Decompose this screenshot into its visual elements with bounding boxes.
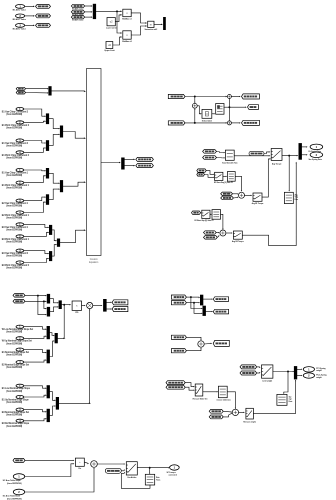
from tag W1b bbox=[240, 371, 257, 375]
wire bbox=[49, 173, 59, 183]
data store DS2 bbox=[277, 394, 287, 405]
outport oval OV2 bbox=[310, 152, 323, 158]
switch SWb bbox=[253, 193, 262, 201]
wire bbox=[50, 392, 56, 401]
wire bbox=[24, 336, 46, 338]
inport oval B3 bbox=[16, 199, 24, 203]
wire bbox=[24, 197, 46, 201]
wire bbox=[264, 152, 269, 154]
wire bbox=[24, 121, 46, 122]
upper limit block bbox=[106, 42, 113, 49]
wire bbox=[197, 106, 201, 114]
svg-text:Limit weight: Limit weight bbox=[262, 379, 272, 382]
mux bbox=[47, 326, 50, 339]
mux bbox=[49, 251, 52, 261]
wire bbox=[223, 415, 228, 417]
wire bbox=[25, 15, 34, 17]
switch SWsw bbox=[195, 384, 203, 396]
product block P1 bbox=[123, 9, 131, 17]
outport oval OP1 bbox=[303, 367, 314, 372]
wire cluster B join bbox=[63, 305, 65, 339]
mux MB5 bbox=[294, 366, 297, 379]
svg-text:SC Arm Table Base: SC Arm Table Base bbox=[3, 495, 21, 498]
outport oval OB3 bbox=[170, 465, 180, 470]
wire bbox=[24, 259, 49, 263]
wire bbox=[25, 300, 46, 302]
svg-text:command: command bbox=[169, 475, 178, 477]
svg-text:(from EEPROM): (from EEPROM) bbox=[6, 267, 22, 270]
wire bbox=[113, 37, 121, 45]
inport oval B2 bbox=[16, 181, 24, 185]
wire bbox=[25, 5, 34, 7]
mux M1 bbox=[93, 4, 96, 19]
wire bbox=[24, 148, 46, 152]
switch SWl bbox=[202, 210, 210, 218]
svg-text:remove slider (m): remove slider (m) bbox=[216, 399, 230, 402]
wire bbox=[97, 463, 124, 465]
wire bbox=[24, 169, 46, 172]
svg-text:B1 Pitch Chirp Coefficient 2: B1 Pitch Chirp Coefficient 2 bbox=[2, 154, 30, 157]
wire bbox=[137, 467, 168, 469]
svg-text:m: m bbox=[150, 23, 152, 26]
wire bbox=[186, 296, 199, 298]
goto tag GTR3 bbox=[242, 120, 260, 125]
wire bbox=[245, 194, 252, 196]
wire bbox=[24, 224, 49, 227]
wire bbox=[50, 341, 54, 357]
from tag FT1 bbox=[16, 87, 25, 90]
svg-text:(from EEPROM): (from EEPROM) bbox=[6, 174, 22, 177]
svg-text:(from EEPROM): (from EEPROM) bbox=[6, 205, 22, 208]
wire bbox=[24, 176, 46, 183]
mux bbox=[46, 168, 49, 179]
mux bbox=[49, 225, 52, 235]
sum SMa bbox=[239, 192, 245, 198]
block E3 bbox=[218, 386, 227, 398]
switch SWv bbox=[246, 408, 254, 419]
from tag FR1 bbox=[168, 94, 185, 98]
wire bbox=[262, 159, 270, 197]
svg-text:(from EEPROM): (from EEPROM) bbox=[6, 126, 22, 129]
wire bbox=[106, 301, 111, 303]
inport oval A1 bbox=[16, 107, 24, 111]
wire bbox=[25, 468, 94, 492]
rate block BY bbox=[145, 474, 154, 485]
svg-text:SC1 torque: SC1 torque bbox=[167, 471, 176, 474]
wire bbox=[50, 307, 58, 312]
svg-text:B2 Pitch Chirp Coefficient 1: B2 Pitch Chirp Coefficient 1 bbox=[2, 214, 30, 217]
block BW bbox=[75, 458, 84, 466]
wire bbox=[228, 99, 230, 121]
sum SM1 bbox=[227, 95, 231, 99]
wire bbox=[85, 5, 92, 7]
inport oval C4 bbox=[16, 261, 24, 265]
gain block BA bbox=[202, 109, 212, 118]
svg-text:B1 Pitch Chirp Coefficient 1: B1 Pitch Chirp Coefficient 1 bbox=[2, 184, 30, 187]
wire bbox=[206, 311, 213, 313]
wire bbox=[82, 305, 85, 307]
wire bbox=[203, 298, 212, 300]
svg-text:B3 Nominal Edge Slope Set: B3 Nominal Edge Slope Set bbox=[2, 411, 29, 414]
wire bbox=[185, 387, 194, 390]
wire bbox=[194, 303, 202, 314]
inport oval D4 bbox=[16, 360, 24, 364]
goto tag GTd bbox=[112, 300, 128, 305]
svg-text:weight: weight bbox=[316, 369, 322, 372]
wire bbox=[234, 155, 269, 157]
inport oval D3 bbox=[16, 348, 24, 352]
wire bbox=[257, 366, 260, 368]
wire bbox=[59, 402, 90, 404]
wire bbox=[51, 90, 84, 92]
svg-text:B2 Nominal Edge Slope Set: B2 Nominal Edge Slope Set bbox=[2, 364, 29, 367]
from tag F2 bbox=[71, 10, 84, 13]
wire bbox=[210, 213, 211, 215]
wire bbox=[24, 360, 46, 362]
wire bbox=[49, 119, 59, 129]
switch SWx bbox=[126, 462, 137, 475]
svg-text:W Low Nominal Edge Slope Set: W Low Nominal Edge Slope Set bbox=[2, 328, 34, 331]
block E2 bbox=[212, 210, 221, 220]
from tag FT4b bbox=[171, 349, 186, 353]
wire bbox=[227, 392, 235, 409]
demux DM1 bbox=[121, 158, 124, 170]
sum SMc bbox=[232, 409, 238, 415]
svg-text:MinMax u2: MinMax u2 bbox=[122, 41, 132, 43]
inport oval In2 bbox=[16, 14, 25, 18]
svg-text:(from EEPROM): (from EEPROM) bbox=[6, 425, 22, 428]
svg-text:(from EEPROM): (from EEPROM) bbox=[6, 113, 22, 116]
mux bbox=[46, 194, 49, 205]
svg-text:W Up Nominal Edge Slope Set: W Up Nominal Edge Slope Set bbox=[2, 340, 32, 343]
svg-text:(from EEPROM): (from EEPROM) bbox=[6, 255, 22, 258]
sum SMd bbox=[91, 461, 98, 468]
wire bbox=[85, 16, 92, 18]
wire bbox=[85, 11, 92, 13]
from tag S3a bbox=[13, 294, 25, 298]
svg-text:(from EEPROM): (from EEPROM) bbox=[6, 156, 22, 159]
wire bbox=[24, 395, 46, 397]
wire bbox=[186, 337, 201, 340]
inport oval E4 bbox=[16, 419, 24, 423]
goto tag GTc bbox=[213, 340, 229, 346]
inport oval B1 bbox=[16, 168, 24, 172]
mux MM0 bbox=[48, 86, 51, 95]
mux bbox=[46, 113, 49, 124]
mux MB4 bbox=[103, 299, 107, 312]
wire bbox=[185, 96, 226, 98]
wire bbox=[106, 308, 111, 310]
switch SWt bbox=[262, 365, 273, 378]
wire bbox=[24, 109, 46, 116]
inport oval OB1 bbox=[13, 474, 24, 480]
from tag T2 bbox=[203, 156, 217, 160]
inport oval D1 bbox=[16, 325, 24, 329]
goto tag GTa bbox=[213, 297, 228, 302]
inport oval In3 bbox=[16, 23, 25, 27]
wire bbox=[223, 410, 231, 413]
wire bbox=[200, 212, 202, 214]
svg-text:B1 ADC Value: B1 ADC Value bbox=[13, 8, 27, 11]
wire bbox=[224, 106, 229, 108]
wire bbox=[221, 214, 223, 229]
wire bbox=[117, 11, 121, 33]
wire bbox=[185, 122, 226, 124]
svg-text:Upper Limit: Upper Limit bbox=[104, 49, 115, 52]
svg-text:Avg B1 Torque: Avg B1 Torque bbox=[252, 202, 264, 205]
wire bbox=[50, 299, 58, 303]
from tag L1a bbox=[192, 211, 201, 214]
from tag FT3a bbox=[171, 295, 186, 299]
mux combiner bbox=[57, 239, 60, 247]
wire bbox=[229, 106, 245, 108]
svg-text:SC Arm Table Slope: SC Arm Table Slope bbox=[3, 479, 22, 482]
svg-text:B1 Yaw Chirp Coefficient 2: B1 Yaw Chirp Coefficient 2 bbox=[2, 142, 29, 145]
svg-text:(from EEPROM): (from EEPROM) bbox=[6, 342, 22, 345]
output bar bbox=[163, 17, 166, 30]
from tag W3a bbox=[209, 409, 223, 413]
wire bbox=[49, 134, 59, 145]
mux combiner bbox=[55, 333, 58, 343]
mux MS2 bbox=[47, 307, 50, 317]
wire bbox=[24, 327, 46, 330]
wire bbox=[63, 182, 85, 186]
wire bbox=[216, 232, 219, 234]
from tag FT2 bbox=[16, 91, 25, 94]
wire bbox=[26, 88, 48, 90]
block E1 bbox=[227, 172, 235, 182]
wire bbox=[223, 175, 227, 177]
wire bbox=[282, 155, 297, 157]
wire bbox=[235, 176, 241, 190]
from pill PL2 bbox=[105, 468, 121, 473]
wire bbox=[226, 232, 232, 234]
wire bbox=[38, 296, 46, 315]
mux MB2 bbox=[299, 143, 302, 160]
wire bbox=[212, 113, 215, 115]
svg-text:MinMax u1: MinMax u1 bbox=[122, 18, 132, 20]
svg-text:B1 Pitch Chirp Coefficient 3: B1 Pitch Chirp Coefficient 3 bbox=[2, 124, 30, 127]
wire bbox=[297, 368, 302, 370]
svg-text:B1 Nominal Edge Slope Set: B1 Nominal Edge Slope Set bbox=[2, 351, 29, 354]
svg-text:B3 Yaw Chirp Coefficient 1: B3 Yaw Chirp Coefficient 1 bbox=[2, 226, 29, 229]
wire bbox=[25, 464, 74, 477]
inport oval D2 bbox=[16, 336, 24, 340]
wire bbox=[121, 470, 124, 472]
from tag Z1 bbox=[13, 458, 25, 462]
wire bbox=[52, 230, 56, 241]
wire bbox=[231, 96, 239, 98]
svg-text:(from EEPROM): (from EEPROM) bbox=[6, 390, 22, 393]
wire bbox=[50, 406, 56, 415]
mux MXb bbox=[203, 306, 206, 316]
from tag U1b bbox=[197, 173, 205, 176]
svg-text:(from EEPROM): (from EEPROM) bbox=[6, 145, 22, 148]
wire bbox=[253, 380, 295, 413]
wire bbox=[239, 411, 244, 413]
svg-text:Yaw Arbiter: Yaw Arbiter bbox=[127, 476, 136, 479]
wire bbox=[217, 236, 219, 237]
wire bbox=[288, 156, 290, 191]
inport oval In1 bbox=[16, 4, 25, 8]
wire bbox=[25, 24, 34, 26]
wire bbox=[26, 92, 48, 94]
inport oval A4 bbox=[16, 150, 24, 154]
inport oval E1 bbox=[16, 384, 24, 388]
block C Sum Simulink Yaw bbox=[225, 150, 234, 160]
mux MS3 bbox=[59, 300, 62, 309]
wire bbox=[206, 171, 213, 175]
mux bbox=[46, 140, 49, 151]
sum SM3 bbox=[227, 121, 231, 125]
svg-text:(from EEPROM): (from EEPROM) bbox=[6, 366, 22, 369]
wire bbox=[44, 301, 46, 308]
wire bbox=[284, 372, 288, 394]
svg-text:(from EEPROM): (from EEPROM) bbox=[6, 228, 22, 231]
block BP bbox=[72, 301, 81, 310]
svg-text:Remove Slider Set: Remove Slider Set bbox=[193, 397, 208, 400]
wire bbox=[302, 146, 307, 148]
svg-text:weight: weight bbox=[316, 376, 322, 379]
wire bbox=[96, 10, 122, 12]
svg-text:Avg B2 Torque: Avg B2 Torque bbox=[232, 240, 244, 243]
wire bbox=[154, 23, 162, 25]
mux MS1 bbox=[47, 294, 50, 304]
svg-text:(from EEPROM): (from EEPROM) bbox=[7, 482, 22, 485]
wire bbox=[52, 245, 56, 257]
wire bbox=[24, 410, 46, 412]
wire bbox=[24, 350, 46, 353]
wire cluster C join bbox=[89, 309, 91, 404]
wire bbox=[60, 230, 85, 242]
wire bbox=[149, 468, 151, 474]
svg-text:B1 Base flap [2] Gain F2: B1 Base flap [2] Gain F2 bbox=[195, 220, 214, 222]
wire bbox=[204, 175, 213, 178]
wire bbox=[93, 305, 102, 307]
svg-text:(from EEPROM): (from EEPROM) bbox=[6, 187, 22, 190]
from tag W1a bbox=[240, 365, 257, 369]
wire bbox=[194, 109, 196, 123]
inport oval OB2 bbox=[13, 489, 24, 495]
svg-text:Avg Torque: Avg Torque bbox=[272, 162, 281, 165]
wire bbox=[24, 386, 46, 388]
svg-text:Sec Spring Data: Sec Spring Data bbox=[309, 158, 323, 161]
from tag U1a bbox=[197, 169, 206, 172]
wire bbox=[24, 251, 49, 254]
from tag FR2 bbox=[168, 121, 185, 125]
from tag F3 bbox=[71, 15, 84, 18]
wire bbox=[217, 157, 225, 159]
goto tag GTR2 bbox=[248, 105, 259, 110]
wire bbox=[233, 193, 238, 195]
from tag L2b bbox=[204, 236, 218, 240]
mux combiner bbox=[60, 180, 63, 192]
wire bbox=[242, 163, 296, 246]
product block P2 bbox=[123, 31, 131, 39]
wire bbox=[84, 462, 88, 463]
svg-text:(from EEPROM): (from EEPROM) bbox=[6, 331, 22, 334]
svg-text:(from EEPROM): (from EEPROM) bbox=[6, 240, 22, 243]
wire bbox=[194, 97, 196, 103]
wire bbox=[273, 371, 293, 373]
svg-text:B3 Pitch Chirp Coefficient 0: B3 Pitch Chirp Coefficient 0 bbox=[2, 264, 30, 267]
from tag S3b bbox=[13, 300, 25, 304]
goto tag GTR1 bbox=[242, 94, 260, 99]
from tag FT3b bbox=[171, 301, 186, 305]
wire bbox=[186, 348, 201, 351]
inport oval A2 bbox=[16, 120, 24, 124]
goto tag [A_CH_1] bbox=[36, 5, 51, 9]
svg-text:Lower Limit: Lower Limit bbox=[106, 27, 117, 30]
wire bbox=[24, 232, 49, 236]
inport oval C3 bbox=[16, 249, 24, 253]
wire bbox=[57, 337, 64, 339]
wire bbox=[25, 294, 46, 296]
goto tag O_CH_B bbox=[136, 164, 154, 168]
wire bbox=[186, 302, 199, 304]
wire bbox=[115, 15, 121, 22]
wire bbox=[185, 383, 194, 387]
svg-text:(from EEPROM): (from EEPROM) bbox=[6, 354, 22, 357]
inport oval E2 bbox=[16, 395, 24, 399]
inport oval B4 bbox=[16, 211, 24, 215]
block BB bbox=[216, 104, 224, 115]
wire bbox=[63, 132, 85, 139]
sum SMb bbox=[220, 230, 226, 236]
svg-text:B3 ADC value: B3 ADC value bbox=[72, 18, 83, 21]
svg-text:B1 Yaw Chirp Coefficient 1: B1 Yaw Chirp Coefficient 1 bbox=[2, 171, 29, 174]
mux combiner bbox=[60, 126, 63, 138]
wire bbox=[191, 297, 202, 308]
goto tag [A_CH_3] bbox=[36, 24, 51, 28]
goto tag GTb bbox=[213, 309, 228, 314]
wire bbox=[217, 150, 220, 152]
svg-text:(from EEPROM): (from EEPROM) bbox=[6, 217, 22, 220]
from tag M1b bbox=[221, 196, 234, 200]
wire bbox=[302, 154, 307, 156]
mux bbox=[47, 350, 50, 364]
wire bbox=[50, 333, 54, 336]
sum SM2 bbox=[192, 103, 197, 108]
wire bbox=[131, 13, 146, 23]
from tag F1 bbox=[71, 4, 84, 7]
from tag W2a bbox=[166, 381, 185, 385]
mux bbox=[47, 409, 50, 422]
inport oval A3 bbox=[16, 139, 24, 143]
svg-text:B2 ADC Value: B2 ADC Value bbox=[13, 18, 27, 21]
svg-text:B2 Yaw Chirp Coefficient 1: B2 Yaw Chirp Coefficient 1 bbox=[2, 202, 29, 205]
product circle SMf bbox=[87, 302, 93, 308]
lower limit block bbox=[107, 18, 115, 26]
outport oval OP2 bbox=[303, 373, 314, 378]
switch SWc bbox=[233, 231, 242, 239]
wire bbox=[203, 391, 218, 393]
from tag M1a bbox=[221, 192, 233, 195]
svg-text:B3 Pitch Chirp Coefficient 1: B3 Pitch Chirp Coefficient 1 bbox=[2, 238, 30, 241]
svg-text:Custom: Custom bbox=[90, 258, 98, 261]
from tag W3b bbox=[209, 415, 223, 419]
wire bbox=[24, 202, 46, 212]
inport oval C1 bbox=[16, 222, 24, 226]
wire bbox=[24, 141, 46, 144]
svg-text:Select Gain1: Select Gain1 bbox=[202, 119, 212, 122]
inport oval E3 bbox=[16, 408, 24, 412]
svg-text:B3 Yaw Chirp Coefficient 0: B3 Yaw Chirp Coefficient 0 bbox=[2, 252, 29, 255]
wire bbox=[297, 375, 302, 377]
from tag FT4a bbox=[171, 335, 186, 339]
from pill PL1 bbox=[249, 151, 264, 155]
inport oval C2 bbox=[16, 234, 24, 238]
